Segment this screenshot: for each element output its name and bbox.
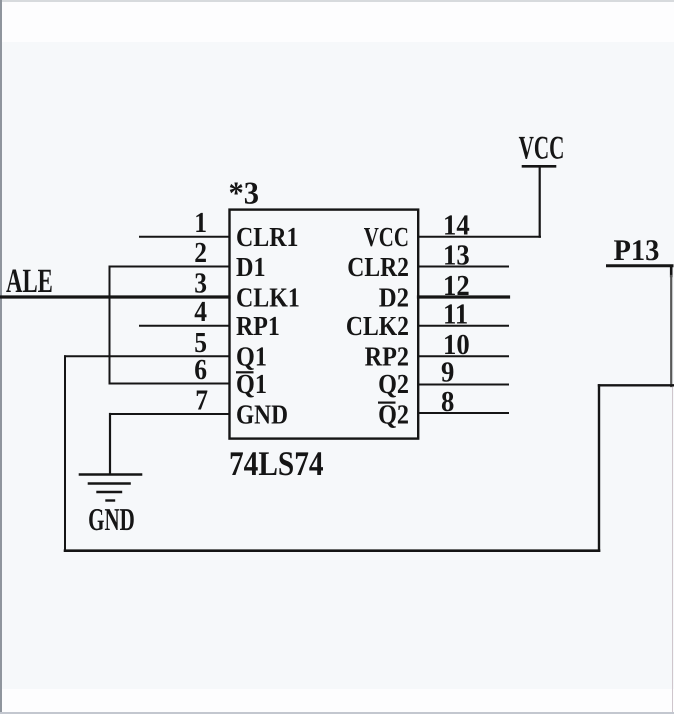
ground symbol bbox=[80, 414, 141, 501]
svg-text:3: 3 bbox=[194, 268, 207, 300]
wire pin 14 VCC bbox=[419, 236, 541, 238]
wire feedback vertical right bbox=[598, 385, 600, 550]
wire pin 4 RP1 bbox=[140, 325, 229, 327]
svg-text:GND: GND bbox=[88, 502, 135, 537]
wire pin 5 Q1 bbox=[65, 355, 229, 357]
wire pin 8 Q2bar bbox=[419, 412, 509, 414]
wire pin 1 CLR1 bbox=[140, 236, 229, 238]
pin label Q1bar bbox=[236, 368, 267, 399]
wire P13 to right edge bbox=[608, 266, 673, 276]
svg-text:14: 14 bbox=[443, 210, 470, 242]
power symbol VCC bbox=[523, 166, 555, 236]
svg-text:Q2: Q2 bbox=[378, 368, 409, 399]
svg-text:CLK1: CLK1 bbox=[236, 281, 300, 312]
wire feedback bottom bbox=[65, 549, 599, 552]
wire pin 12 D2 bbox=[419, 295, 509, 298]
svg-text:ALE: ALE bbox=[6, 263, 53, 300]
svg-text:P13: P13 bbox=[614, 234, 660, 267]
svg-text:12: 12 bbox=[443, 270, 470, 302]
svg-text:*3: *3 bbox=[229, 176, 260, 211]
svg-text:7: 7 bbox=[195, 385, 208, 417]
svg-text:CLR2: CLR2 bbox=[347, 251, 409, 282]
svg-text:CLR1: CLR1 bbox=[236, 221, 298, 252]
wire pin 2 D1 bbox=[110, 266, 230, 268]
wire pin 9 Q2 bbox=[419, 384, 509, 386]
wire pin 10 RP2 bbox=[419, 355, 509, 357]
svg-text:VCC: VCC bbox=[364, 221, 409, 252]
pin label Q2bar bbox=[378, 398, 409, 429]
wire pin 6 Q1bar bbox=[110, 383, 230, 385]
svg-text:4: 4 bbox=[194, 296, 207, 328]
IC U1 74LS74 body bbox=[230, 210, 419, 439]
svg-text:74LS74: 74LS74 bbox=[229, 445, 324, 483]
wire pin 11 CLK2 bbox=[419, 325, 509, 327]
svg-text:VCC: VCC bbox=[519, 131, 565, 167]
wire ALE to pin 3 CLK1 bbox=[0, 295, 229, 298]
svg-text:D2: D2 bbox=[379, 281, 409, 312]
wire pin 7 GND bbox=[110, 413, 229, 415]
svg-text:RP1: RP1 bbox=[236, 310, 280, 341]
svg-text:CLK2: CLK2 bbox=[346, 310, 409, 341]
wire P13 down right edge to feedback bbox=[670, 276, 672, 386]
svg-text:D1: D1 bbox=[236, 251, 266, 282]
svg-text:9: 9 bbox=[441, 356, 454, 388]
svg-text:8: 8 bbox=[441, 386, 454, 418]
wire pin 13 CLR2 bbox=[419, 266, 509, 268]
wire Q1 feedback vertical left bbox=[64, 356, 66, 550]
wire feedback right edge horizontal bbox=[599, 384, 674, 386]
wire D1 to Q1bar vertical bbox=[109, 267, 111, 384]
svg-text:GND: GND bbox=[236, 398, 288, 429]
svg-text:13: 13 bbox=[443, 239, 470, 271]
svg-text:11: 11 bbox=[443, 299, 468, 331]
svg-text:6: 6 bbox=[194, 354, 207, 386]
svg-text:1: 1 bbox=[194, 207, 207, 239]
svg-text:2: 2 bbox=[194, 237, 207, 269]
